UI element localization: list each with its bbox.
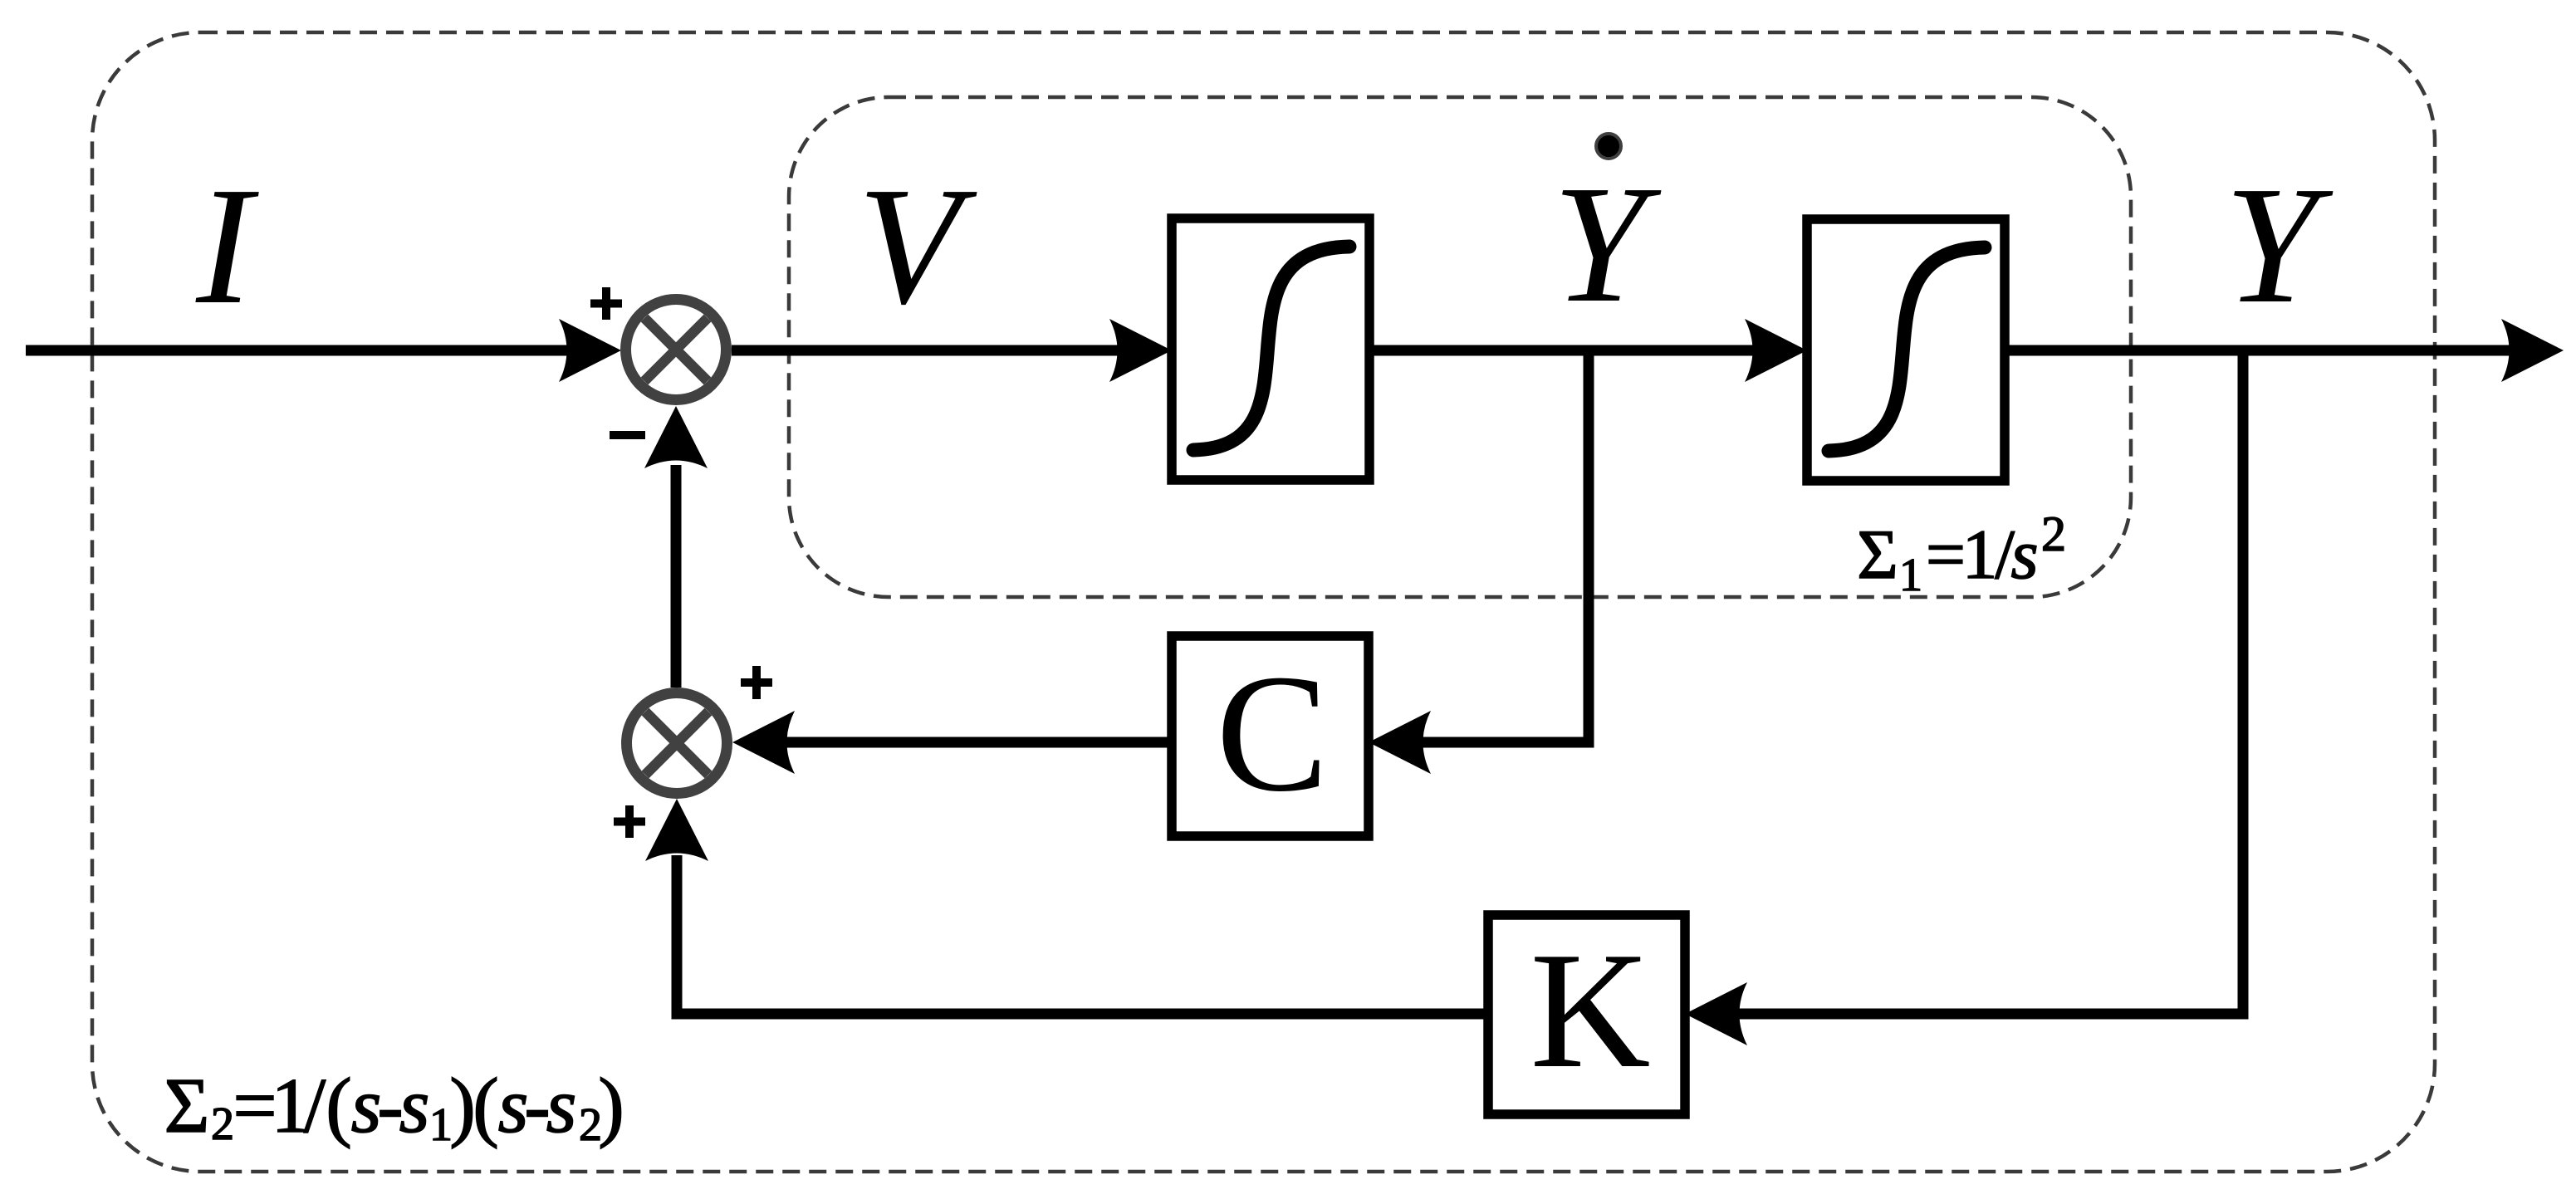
svg-text:/: / <box>304 1063 326 1149</box>
svg-text:): ) <box>598 1063 624 1149</box>
svg-text:Y: Y <box>2225 151 2334 338</box>
svg-text:K: K <box>1530 918 1650 1103</box>
svg-text:2: 2 <box>211 1099 234 1150</box>
svg-text:Σ: Σ <box>1857 516 1898 594</box>
svg-text:(: ( <box>473 1063 498 1149</box>
svg-text:=: = <box>1926 516 1966 594</box>
svg-text:I: I <box>195 152 259 339</box>
svg-text:C: C <box>1216 639 1328 826</box>
svg-text:Y: Y <box>1553 150 1662 337</box>
svg-text:s: s <box>546 1063 577 1149</box>
svg-text:V: V <box>858 152 977 339</box>
svg-text:s: s <box>2010 516 2038 594</box>
svg-text:1: 1 <box>1899 550 1922 601</box>
svg-text:Σ: Σ <box>164 1063 210 1149</box>
svg-text:): ) <box>449 1063 475 1149</box>
svg-text:1: 1 <box>1962 516 1998 594</box>
svg-text:(: ( <box>326 1063 351 1149</box>
svg-text:2: 2 <box>2041 507 2066 561</box>
svg-text:s: s <box>399 1063 430 1149</box>
